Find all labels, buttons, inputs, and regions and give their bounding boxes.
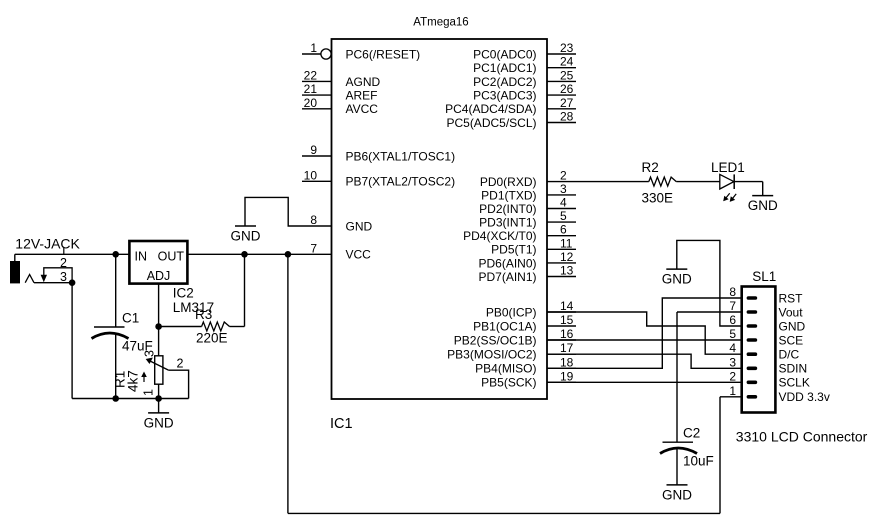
- svg-text:PC4(ADC4/SDA): PC4(ADC4/SDA): [445, 102, 536, 116]
- jack tip contact: [25, 275, 34, 283]
- IC1 pin 1 PC6(/RESET): [302, 53, 321, 55]
- svg-text:Vout: Vout: [779, 305, 804, 319]
- svg-text:6: 6: [560, 223, 567, 237]
- svg-text:PC0(ADC0): PC0(ADC0): [473, 47, 536, 61]
- svg-text:2: 2: [729, 369, 736, 383]
- wire pot pin1: [158, 384, 160, 398]
- IC1 pin 25 PC2(ADC2): [547, 80, 576, 82]
- IC1 pin 19 PB5(SCK): [547, 381, 576, 383]
- IC1 pin 26 PC3(ADC3): [547, 94, 576, 96]
- svg-text:10: 10: [304, 168, 318, 182]
- wire IC1 PD0 to R2: [576, 181, 649, 183]
- svg-text:GND: GND: [662, 487, 692, 502]
- IC1 pin 14 PB0(ICP): [547, 311, 576, 313]
- SL1 pin 3 SDIN: [747, 367, 758, 371]
- wire ground rail: [72, 398, 189, 400]
- wire PB3 pin17 to SL1 SDIN: [547, 354, 742, 368]
- IC1 pin 10 PB7(XTAL2/TOSC2): [302, 180, 332, 182]
- SL1 pin 6 GND: [747, 324, 758, 328]
- svg-text:PB3(MOSI/OC2): PB3(MOSI/OC2): [447, 348, 536, 362]
- svg-text:PC2(ADC2): PC2(ADC2): [473, 75, 536, 89]
- svg-text:PC3(ADC3): PC3(ADC3): [473, 89, 536, 103]
- wire bottom VDD rail: [288, 512, 720, 514]
- IC1 pin 4 PD2(INT0): [547, 208, 576, 210]
- svg-text:SCE: SCE: [779, 333, 804, 347]
- diode LED1: [720, 174, 736, 202]
- SL1 pin 1 VDD 3.3v: [747, 395, 758, 399]
- svg-text:24: 24: [560, 55, 574, 69]
- svg-text:SL1: SL1: [752, 269, 776, 284]
- IC1 ATmega16 box: [332, 39, 548, 399]
- svg-text:GND: GND: [231, 229, 261, 244]
- wire SL1 Vout to C2: [677, 311, 742, 313]
- svg-text:28: 28: [560, 110, 574, 124]
- wire 12V rail to IC2 IN: [15, 253, 130, 255]
- ground GND at SL1: [662, 269, 692, 287]
- regulator IC2 LM317 box: [129, 241, 187, 284]
- svg-text:C1: C1: [122, 311, 139, 326]
- IC1 pin 13 PD7(AIN1): [547, 276, 576, 278]
- ground GND at C2: [662, 485, 692, 503]
- svg-text:ATmega16: ATmega16: [413, 17, 468, 29]
- svg-text:7: 7: [310, 241, 317, 255]
- svg-text:13: 13: [560, 264, 574, 278]
- SL1 pin 8 RST: [747, 296, 758, 300]
- capacitor C2 plus plate: [663, 441, 694, 443]
- svg-text:1: 1: [310, 41, 317, 55]
- ground GND at LED1: [748, 196, 778, 214]
- svg-text:AREF: AREF: [346, 89, 378, 103]
- wire ADJ down: [158, 284, 160, 356]
- wire pot pin2 loop: [168, 370, 188, 398]
- wire PB2 pin16 to SL1 SCE: [547, 339, 742, 341]
- svg-text:5: 5: [729, 327, 736, 341]
- wire GND stem: [158, 399, 160, 413]
- ground GND at pin 8: [231, 226, 261, 244]
- svg-text:PB4(MISO): PB4(MISO): [475, 362, 536, 376]
- svg-text:D/C: D/C: [779, 348, 800, 362]
- IC1 pin 21 AREF: [302, 94, 332, 96]
- SL1 pin 5 SCE: [747, 338, 758, 342]
- connector SL1 box: [742, 287, 776, 413]
- svg-text:14: 14: [560, 299, 574, 313]
- jack switch arrow: [41, 275, 47, 282]
- svg-text:PB1(OC1A): PB1(OC1A): [473, 319, 536, 333]
- capacitor C1 bottom wire: [115, 335, 117, 399]
- wire R3 to VCC rail: [230, 326, 245, 328]
- wire IC2 OUT to IC1 VCC pin 7: [187, 253, 302, 255]
- svg-text:PC6(/RESET): PC6(/RESET): [346, 47, 421, 61]
- svg-text:VDD 3.3v: VDD 3.3v: [779, 390, 830, 404]
- IC1 pin 17 PB3(MOSI/OC2): [547, 353, 576, 355]
- SL1 pin 4 D/C: [747, 352, 758, 356]
- svg-text:3310 LCD Connector: 3310 LCD Connector: [736, 429, 868, 445]
- svg-text:R2: R2: [642, 160, 659, 175]
- svg-text:PD6(AIN0): PD6(AIN0): [478, 256, 536, 270]
- wire up to SL1 VDD: [719, 397, 721, 514]
- IC1 pin 20 AVCC: [302, 108, 332, 110]
- node jack tip junction: [69, 279, 76, 286]
- svg-text:PD0(RXD): PD0(RXD): [480, 175, 537, 189]
- wire jack down to ground rail: [71, 283, 73, 399]
- svg-text:22: 22: [304, 68, 318, 82]
- svg-text:4: 4: [560, 196, 567, 210]
- svg-text:IN: IN: [135, 250, 148, 264]
- capacitor C1 plus plate: [94, 326, 125, 328]
- svg-text:2: 2: [60, 256, 67, 270]
- svg-text:220E: 220E: [196, 331, 228, 346]
- svg-text:R3: R3: [195, 307, 212, 322]
- svg-text:12V-JACK: 12V-JACK: [15, 236, 80, 252]
- svg-text:GND: GND: [662, 272, 692, 287]
- IC1 pin 23 PC0(ADC0): [547, 53, 576, 55]
- svg-text:4k7: 4k7: [126, 370, 141, 392]
- node VCC-R3 junction: [241, 251, 248, 258]
- svg-text:GND: GND: [346, 219, 373, 233]
- ground GND left: [144, 413, 174, 431]
- svg-text:4: 4: [729, 341, 736, 355]
- wire PB4 pin18 to SL1 RST: [547, 298, 742, 368]
- wire PB0 pin14 to SL1 D/C: [547, 312, 742, 354]
- IC1 pin 18 PB4(MISO): [547, 367, 576, 369]
- potentiometer R1 body: [155, 356, 163, 384]
- svg-text:PD4(XCK/T0): PD4(XCK/T0): [463, 229, 536, 243]
- IC1 pin 3 PD1(TXD): [547, 194, 576, 196]
- svg-text:17: 17: [560, 341, 574, 355]
- connector J1 12V jack sleeve: [10, 261, 20, 283]
- svg-text:15: 15: [560, 313, 574, 327]
- svg-text:PC5(ADC5/SCL): PC5(ADC5/SCL): [446, 116, 536, 130]
- IC1 pin 16 PB2(SS/OC1B): [547, 339, 576, 341]
- IC1 pin 22 AGND: [302, 80, 332, 82]
- svg-text:2: 2: [177, 357, 184, 371]
- svg-text:8: 8: [310, 213, 317, 227]
- svg-text:GND: GND: [748, 198, 778, 213]
- svg-text:ADJ: ADJ: [147, 269, 171, 283]
- svg-text:20: 20: [304, 96, 318, 110]
- svg-text:7: 7: [729, 299, 736, 313]
- svg-text:PB2(SS/OC1B): PB2(SS/OC1B): [454, 333, 537, 347]
- IC1 pin 15 PB1(OC1A): [547, 325, 576, 327]
- node C1 bottom junction: [112, 395, 119, 402]
- IC1 pin 2 PD0(RXD): [547, 181, 576, 183]
- svg-text:23: 23: [560, 41, 574, 55]
- resistor R2: [649, 177, 677, 186]
- svg-text:9: 9: [310, 143, 317, 157]
- svg-text:PC1(ADC1): PC1(ADC1): [473, 61, 536, 75]
- SL1 pin 2 SCLK: [747, 381, 758, 385]
- svg-text:PB6(XTAL1/TOSC1): PB6(XTAL1/TOSC1): [346, 149, 456, 163]
- svg-text:3: 3: [729, 355, 736, 369]
- svg-text:PD7(AIN1): PD7(AIN1): [478, 270, 536, 284]
- svg-text:OUT: OUT: [158, 250, 185, 264]
- wire ADJ to R3: [159, 326, 202, 328]
- wire SL1 GND loop: [677, 240, 742, 326]
- svg-text:3: 3: [60, 270, 67, 284]
- svg-text:GND: GND: [779, 319, 806, 333]
- node R1 bottom junction: [155, 395, 162, 402]
- svg-text:1: 1: [142, 389, 156, 396]
- IC1 pin 5 PD3(INT1): [547, 221, 576, 223]
- capacitor C1 curved plate: [92, 333, 129, 339]
- svg-text:GND: GND: [144, 415, 174, 430]
- svg-text:21: 21: [304, 82, 318, 96]
- svg-text:PB5(SCK): PB5(SCK): [481, 376, 536, 390]
- potentiometer R1 arrow: [143, 375, 145, 382]
- svg-text:SCLK: SCLK: [779, 376, 810, 390]
- SL1 pin 7 Vout: [747, 310, 758, 314]
- IC1 pin 12 PD6(AIN0): [547, 262, 576, 264]
- svg-text:PD5(T1): PD5(T1): [491, 243, 536, 257]
- wire PB5 pin19 to SL1 SCLK: [547, 381, 742, 383]
- node VCC-VDD junction: [285, 251, 292, 258]
- svg-text:SDIN: SDIN: [779, 362, 808, 376]
- label tick: [63, 248, 65, 255]
- svg-text:C2: C2: [683, 426, 700, 441]
- resistor R3: [202, 322, 230, 331]
- svg-text:AGND: AGND: [346, 75, 381, 89]
- svg-text:PD2(INT0): PD2(INT0): [479, 202, 536, 216]
- capacitor C2 bottom wire: [676, 450, 678, 485]
- svg-text:25: 25: [560, 68, 574, 82]
- IC1 pin 28 PC5(ADC5/SCL): [547, 122, 576, 124]
- svg-text:8: 8: [729, 285, 736, 299]
- svg-text:18: 18: [560, 355, 574, 369]
- svg-text:VCC: VCC: [346, 248, 372, 262]
- IC1 pin 9 PB6(XTAL1/TOSC1): [302, 155, 332, 157]
- svg-text:16: 16: [560, 327, 574, 341]
- svg-text:2: 2: [560, 169, 567, 183]
- svg-text:3: 3: [143, 350, 157, 357]
- svg-text:RST: RST: [779, 291, 804, 305]
- IC1 pin 6 PD4(XCK/T0): [547, 235, 576, 237]
- svg-text:AVCC: AVCC: [346, 102, 379, 116]
- IC1 pin 8 GND: [302, 225, 332, 227]
- svg-text:PB0(ICP): PB0(ICP): [486, 305, 537, 319]
- jack pin 2 loop wire: [44, 268, 72, 283]
- svg-text:PD3(INT1): PD3(INT1): [479, 216, 536, 230]
- svg-text:PB7(XTAL2/TOSC2): PB7(XTAL2/TOSC2): [346, 175, 456, 189]
- svg-text:27: 27: [560, 96, 574, 110]
- wire VCC node down: [287, 254, 289, 513]
- svg-text:19: 19: [560, 369, 574, 383]
- wire jack tip line: [34, 282, 72, 284]
- potentiometer R1 wiper: [149, 361, 168, 371]
- IC1 pin 27 PC4(ADC4/SDA): [547, 108, 576, 110]
- svg-text:IC2: IC2: [173, 286, 194, 301]
- wire LED1 cathode to GND: [734, 181, 763, 183]
- svg-text:6: 6: [729, 313, 736, 327]
- node ADJ junction: [155, 323, 162, 330]
- svg-text:5: 5: [560, 209, 567, 223]
- svg-text:IC1: IC1: [330, 416, 353, 432]
- node VCC-C1 junction: [112, 251, 119, 258]
- svg-text:26: 26: [560, 82, 574, 96]
- svg-text:10uF: 10uF: [683, 454, 714, 469]
- svg-text:LED1: LED1: [711, 160, 745, 175]
- svg-text:1: 1: [729, 384, 736, 398]
- wire jack sleeve to rail: [14, 254, 16, 261]
- wire IC1 GND pin 8 loop: [245, 197, 302, 226]
- svg-text:3: 3: [560, 182, 567, 196]
- capacitor C2 curved plate: [660, 448, 697, 454]
- wire R2 to LED1: [676, 181, 720, 183]
- IC1 pin 11 PD5(T1): [547, 248, 576, 250]
- IC1 pin 24 PC1(ADC1): [547, 67, 576, 69]
- capacitor C1 top wire: [115, 254, 117, 327]
- IC1 pin 7 VCC: [302, 253, 332, 255]
- svg-text:PD1(TXD): PD1(TXD): [481, 188, 536, 202]
- svg-text:330E: 330E: [642, 191, 674, 206]
- svg-text:12: 12: [560, 250, 574, 264]
- svg-text:11: 11: [560, 236, 573, 250]
